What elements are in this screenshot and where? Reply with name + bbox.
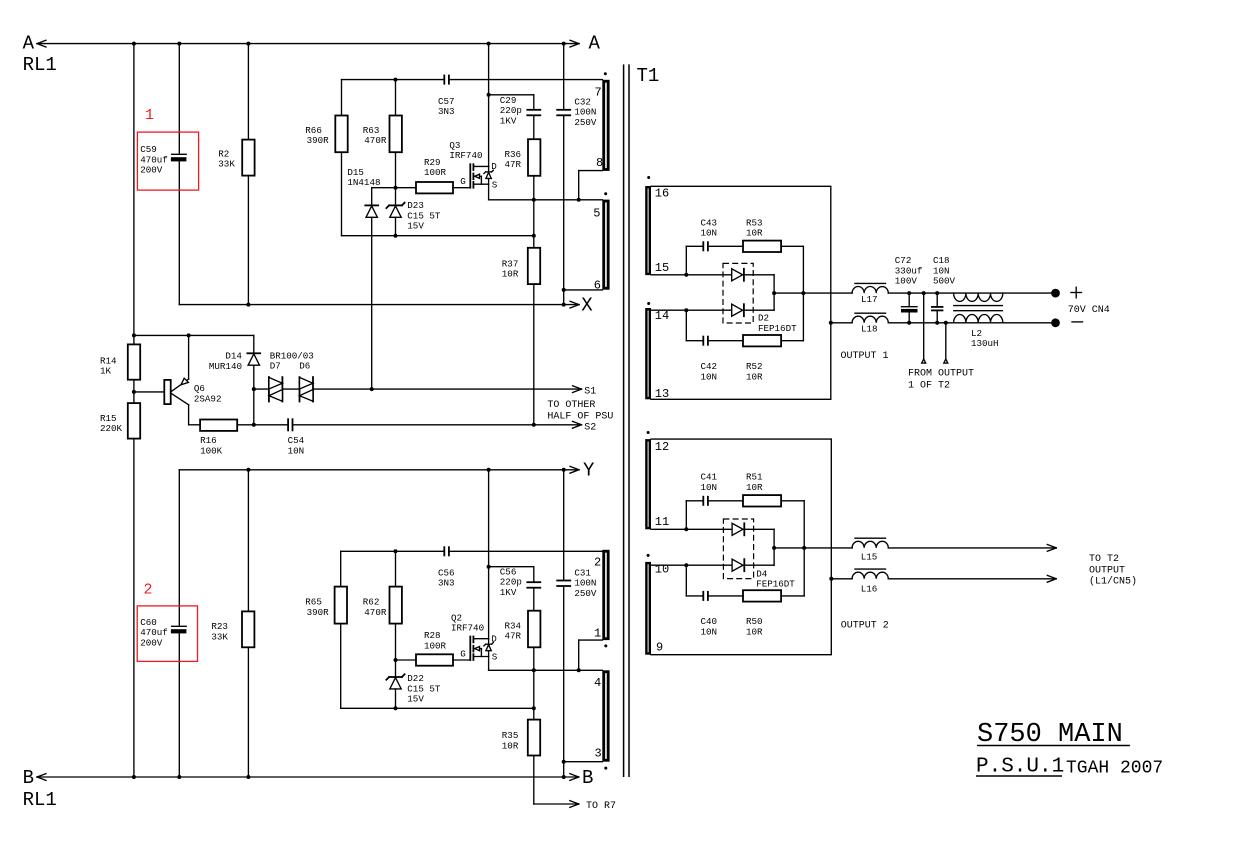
pin label S Q2 (492, 652, 498, 663)
label BR100/03 (270, 350, 314, 361)
svg-text:500V: 500V (933, 276, 956, 287)
wire output1 plus 2 (888, 292, 1051, 294)
resistor R37 (528, 248, 540, 284)
net label S1 (584, 386, 596, 397)
label D14 value (209, 351, 243, 372)
wire net Y (179, 466, 579, 473)
junction drain / C56 220p (487, 565, 491, 569)
capacitor C56 3N3 (444, 547, 449, 555)
wire gate rail (372, 188, 416, 206)
svg-text:IRF740: IRF740 (449, 150, 482, 161)
pin label 16 (655, 187, 669, 201)
wire lower gate rail (396, 659, 417, 661)
wire lower source rail (489, 657, 603, 671)
wire source rail (489, 184, 603, 200)
svg-text:33K: 33K (211, 631, 228, 642)
svg-text:47R: 47R (505, 159, 522, 170)
wire emitter vertical (188, 335, 190, 379)
body diode Q3 (484, 166, 493, 184)
svg-text:70V CN4: 70V CN4 (1068, 305, 1110, 316)
junction A / C32 (562, 42, 566, 46)
inductor L16 (852, 569, 888, 579)
pin label G Q3 (460, 176, 466, 187)
diode D4 lower (732, 559, 744, 571)
wire net X (179, 301, 579, 308)
label R52 value (746, 361, 763, 382)
svg-text:47R: 47R (505, 631, 522, 642)
pin label 6 (594, 278, 601, 292)
wire winding 3 tap (564, 761, 603, 763)
junction B / C31 (562, 775, 566, 779)
core line T1 left (623, 64, 625, 777)
zener D23 (386, 188, 404, 236)
capacitor C42 (703, 337, 708, 345)
body diode Q2 (484, 639, 493, 657)
label R36 value (505, 149, 522, 170)
wire lower drain bus (488, 470, 490, 639)
wire net A horizontal (37, 40, 579, 47)
capacitor C31 (557, 470, 570, 777)
wire output1 minus 2 (888, 322, 1051, 324)
label C43 value (701, 217, 718, 238)
wire D4 upper out (744, 529, 774, 548)
terminal CN4 plus (1051, 289, 1060, 298)
dashed box D2 (723, 263, 753, 323)
wire left rail lower segment (133, 439, 135, 777)
title P.S.U.1 (976, 756, 1064, 779)
wire R66 bottom (341, 152, 343, 236)
svg-text:390R: 390R (307, 135, 330, 146)
wire snubber right rail 1 (802, 246, 804, 340)
resistor R63 (390, 80, 402, 188)
pin label 2 (594, 556, 601, 570)
wire pin 10 (651, 564, 732, 566)
label C31 value (574, 567, 597, 598)
wire lower top rail (341, 551, 603, 586)
diode D14 (247, 353, 260, 389)
winding T1 7-8 (602, 80, 609, 171)
junction snubber / output2 (802, 546, 806, 550)
svg-text:200V: 200V (140, 637, 163, 648)
net label S2 (584, 423, 596, 434)
junction pin11 / snubber (684, 527, 688, 531)
junction snubber / output1 (801, 291, 805, 295)
pin label 10 (655, 563, 669, 577)
wire R36 R37 link (533, 200, 535, 248)
junction B / C60 (177, 775, 181, 779)
junction L18 tap (829, 321, 833, 325)
svg-text:16: 16 (655, 187, 669, 201)
wire R34 bottom (533, 647, 535, 670)
wire snubber4 rail (686, 565, 804, 596)
wire top rail (342, 80, 603, 116)
junction C31 / winding 3 (562, 760, 566, 764)
red box 1 (137, 132, 198, 190)
pin label 11 (655, 515, 669, 529)
resistor R35 (528, 720, 540, 756)
svg-text:B: B (23, 767, 34, 789)
svg-text:D: D (491, 161, 497, 172)
junction emitter vertical (187, 333, 191, 337)
net label B (left) (23, 767, 34, 789)
wire D14 to S2 (253, 389, 255, 425)
label L18 value (861, 324, 878, 335)
svg-text:100V: 100V (895, 276, 918, 287)
svg-text:TGAH 2007: TGAH 2007 (1066, 759, 1163, 779)
polarity dot winding 1 (604, 644, 607, 647)
svg-text:L16: L16 (861, 584, 878, 595)
svg-text:D6: D6 (299, 361, 310, 372)
label C18 value (933, 255, 956, 286)
svg-text:100K: 100K (200, 445, 223, 456)
wire output2 line 3 (831, 578, 852, 580)
svg-text:15V: 15V (407, 694, 424, 705)
svg-text:11: 11 (655, 515, 669, 529)
label 70V CN4 (1068, 305, 1110, 316)
label D4 value (756, 568, 795, 589)
label R28 value (424, 630, 447, 651)
resistor R34 (528, 611, 540, 648)
svg-text:3N3: 3N3 (438, 578, 455, 589)
diode D4 upper (732, 523, 744, 535)
svg-text:470R: 470R (364, 135, 387, 146)
net label B (right) (582, 767, 593, 789)
svg-text:S1: S1 (584, 386, 596, 397)
junction FROM line 2 (944, 321, 948, 325)
wire output2 line 4 (888, 575, 1056, 582)
wire S1 segment 1 (254, 388, 269, 390)
junction Y / C31 (562, 468, 566, 472)
pin label S Q3 (492, 179, 498, 190)
junction A / drain bus (487, 42, 491, 46)
red label 2 (144, 582, 153, 599)
svg-text:10R: 10R (746, 228, 763, 239)
svg-text:220K: 220K (100, 423, 123, 434)
svg-text:P.S.U.1: P.S.U.1 (976, 756, 1064, 779)
label Q6 value (194, 383, 222, 404)
svg-text:4: 4 (594, 676, 601, 690)
svg-text:5: 5 (593, 207, 600, 221)
label R15 value (100, 413, 123, 434)
junction S2 / D14 (252, 423, 256, 427)
wire R65 bottom (340, 624, 342, 709)
pin label 4 (594, 676, 601, 690)
resistor R14 (128, 344, 140, 379)
wire drain bus upper (488, 44, 490, 167)
svg-text:RL1: RL1 (23, 54, 57, 76)
wire R36 bottom (533, 176, 535, 200)
svg-text:10N: 10N (701, 482, 718, 493)
wire from T2 output 1 (922, 293, 926, 363)
label OUTPUT 1 (841, 351, 889, 362)
wire output1 plus (774, 292, 852, 294)
label D7 (270, 361, 281, 372)
wire pin 14 (651, 309, 732, 311)
title S750 MAIN (977, 720, 1130, 750)
transistor Q3 (470, 164, 488, 188)
label L15 value (861, 552, 878, 563)
wire snubber2 rail (686, 310, 803, 341)
diac D7 (269, 377, 283, 401)
svg-text:TO R7: TO R7 (586, 801, 616, 812)
svg-text:14: 14 (655, 309, 669, 323)
junction drain / C29 (487, 93, 491, 97)
polarity dot winding 5 (604, 192, 607, 195)
winding T1 5-6 (602, 200, 609, 290)
wire S1 segment 3 (313, 386, 582, 393)
label C72 value (895, 255, 923, 286)
polarity dot winding 16 (647, 176, 650, 179)
label R66 value (305, 125, 329, 146)
svg-text:9: 9 (656, 641, 663, 655)
junction X / R2 (246, 303, 250, 307)
label R62 value (363, 597, 387, 618)
wire output1 return loop (651, 186, 831, 399)
junction C18 top (935, 291, 939, 295)
label R37 value (502, 259, 519, 280)
svg-text:10R: 10R (502, 269, 519, 280)
pin label 15 (655, 261, 669, 275)
capacitor C57 (444, 76, 449, 84)
svg-text:G: G (460, 648, 466, 659)
label Q3 value (449, 140, 482, 161)
label TO T2 OUTPUT (1089, 554, 1137, 587)
wire base (134, 391, 164, 393)
junction C18 bottom (935, 321, 939, 325)
wire to D14 top (253, 335, 255, 353)
label C60 value (140, 617, 168, 648)
svg-text:FROM OUTPUT: FROM OUTPUT (908, 368, 974, 379)
svg-text:Y: Y (583, 460, 595, 482)
capacitor C32 (557, 44, 570, 305)
junction lower source / winding 1 (577, 668, 581, 672)
svg-text:1: 1 (594, 626, 601, 640)
svg-text:D7: D7 (270, 361, 281, 372)
svg-text:1 OF T2: 1 OF T2 (908, 381, 950, 392)
svg-text:OUTPUT 2: OUTPUT 2 (841, 620, 889, 631)
junction X / C32 (562, 303, 566, 307)
wire from T2 output 2 (944, 323, 948, 363)
capacitor C59 (171, 44, 187, 305)
wire output2 line 2 (888, 545, 1056, 552)
label TO R7 (586, 801, 616, 812)
svg-text:A: A (589, 33, 601, 55)
inductor L2 (954, 293, 1003, 323)
label D15 value (347, 167, 380, 188)
label L16 value (861, 584, 878, 595)
inductor L15 (852, 538, 888, 548)
wire D4 lower out (744, 548, 774, 565)
junction gate rail / R62 D22 (394, 658, 398, 662)
resistor R65 (335, 587, 347, 624)
junction lower rail / R62 (394, 549, 398, 553)
label T1 (637, 65, 660, 87)
junction source / winding 8 (577, 198, 581, 202)
capacitor C29 (527, 110, 540, 116)
junction gate rail / R63 D23 (394, 186, 398, 190)
svg-text:33K: 33K (218, 159, 235, 170)
red label 1 (145, 107, 154, 124)
junction C32 / winding 6 (562, 288, 566, 292)
label D2 value (758, 313, 797, 334)
junction zener rail / R37 (532, 234, 536, 238)
label C29 value (500, 95, 522, 126)
junction rail / R63 (394, 78, 398, 82)
wire lower gate (453, 659, 470, 661)
resistor R51 (743, 495, 781, 506)
wire C56 to R34 (533, 588, 535, 611)
label C41 value (701, 472, 718, 493)
svg-text:D: D (491, 634, 497, 645)
svg-text:L18: L18 (861, 324, 878, 335)
svg-text:8: 8 (596, 156, 603, 170)
pin label 14 (655, 309, 669, 323)
wire C29 to R36 (533, 115, 535, 139)
label R23 value (211, 621, 228, 642)
svg-text:10R: 10R (746, 371, 763, 382)
capacitor C60 (171, 470, 187, 777)
svg-text:S2: S2 (584, 423, 596, 434)
net label RL1 (top) (23, 54, 57, 76)
label R29 value (424, 157, 447, 178)
junction emitter branch (132, 333, 136, 337)
junction A / left rail (132, 42, 136, 46)
svg-text:12: 12 (655, 440, 669, 454)
svg-text:RL1: RL1 (23, 789, 57, 811)
label R51 value (746, 472, 763, 493)
junction lower zener rail / R35 (532, 706, 536, 710)
junction S2 / R37 (532, 423, 536, 427)
wire S2 segment 2 (293, 421, 582, 428)
svg-text:130uH: 130uH (971, 338, 999, 349)
junction source / R36 R37 (532, 198, 536, 202)
junction C72 top (907, 291, 911, 295)
junction pin10 / snubber (684, 563, 688, 567)
pin label D Q3 (491, 161, 497, 172)
resistor R23 (242, 470, 254, 777)
capacitor C41 (703, 497, 708, 505)
svg-text:3N3: 3N3 (438, 106, 455, 117)
wire R16 to junction (237, 424, 254, 426)
svg-text:(L1/CN5): (L1/CN5) (1089, 576, 1137, 588)
red box 2 (137, 606, 197, 662)
label OUTPUT 2 (841, 620, 889, 631)
svg-text:10N: 10N (701, 228, 718, 239)
junction B / left rail (132, 775, 136, 779)
net label X (581, 294, 593, 316)
label D6 (299, 361, 310, 372)
wire winding 1 tap (579, 640, 603, 670)
capacitor C40 (703, 592, 708, 600)
label C57 value (438, 96, 455, 117)
wire lower zener rail (341, 707, 534, 709)
pin label G Q2 (460, 648, 466, 659)
inductor L18 (852, 313, 888, 323)
wire R34 R35 link (533, 670, 535, 719)
wire zener rail (342, 235, 534, 237)
resistor R16 (200, 420, 237, 431)
svg-text:TO OTHER: TO OTHER (547, 400, 595, 411)
pin label 12 (655, 440, 669, 454)
pin label D Q2 (491, 634, 497, 645)
label R35 value (502, 730, 519, 751)
label C56 220p value (500, 567, 522, 598)
label R14 value (100, 355, 117, 376)
wire gate (453, 187, 470, 189)
resistor R36 (528, 139, 540, 176)
svg-text:IRF740: IRF740 (451, 623, 484, 634)
junction C72 bottom (907, 321, 911, 325)
wire rail between R14 R15 (133, 380, 135, 403)
junction A / R2 (246, 42, 250, 46)
net label A (left) (23, 33, 35, 55)
svg-text:S: S (492, 179, 498, 190)
svg-text:X: X (581, 294, 593, 316)
svg-text:A: A (23, 33, 35, 55)
junction D4 output node (772, 546, 776, 550)
wire snubber1 rail (686, 246, 803, 274)
svg-text:1N4148: 1N4148 (347, 177, 380, 188)
junction lower zener rail / D22 (394, 706, 398, 710)
capacitor C43 (703, 242, 708, 250)
plus sign (1071, 287, 1082, 298)
svg-text:TO T2: TO T2 (1089, 554, 1119, 565)
pin label 9 (656, 641, 663, 655)
svg-text:L15: L15 (861, 552, 878, 563)
label R16 value (200, 435, 223, 456)
winding T1 16-15 (645, 186, 651, 275)
svg-text:200V: 200V (140, 165, 163, 176)
resistor R52 (743, 335, 781, 346)
pin label 3 (595, 746, 602, 760)
label R50 value (746, 616, 763, 637)
wire S1 segment 2 (282, 388, 299, 390)
svg-text:2SA92: 2SA92 (194, 393, 222, 404)
svg-text:FEP16DT: FEP16DT (758, 323, 797, 334)
junction lower source / R34 R35 (532, 668, 536, 672)
wire collector (189, 405, 201, 425)
transistor Q2 (470, 637, 488, 661)
diode D2 upper (732, 269, 744, 281)
capacitor C54 (288, 419, 292, 430)
label R34 value (505, 621, 522, 642)
pin label 13 (655, 387, 669, 401)
svg-text:6: 6 (594, 278, 601, 292)
diode D2 lower (732, 304, 744, 316)
junction B / R23 (246, 775, 250, 779)
svg-text:10N: 10N (701, 371, 718, 382)
svg-text:FEP16DT: FEP16DT (756, 579, 795, 590)
svg-text:1KV: 1KV (500, 587, 517, 598)
wire pin 15 (651, 274, 732, 276)
winding T1 10-9 (645, 562, 651, 655)
junction D2 output node (772, 291, 776, 295)
svg-text:HALF OF PSU: HALF OF PSU (547, 412, 613, 423)
label D23 value (407, 200, 441, 231)
resistor R62 (390, 551, 402, 660)
resistor R66 (335, 116, 347, 153)
wire S2 segment 1 (254, 424, 288, 426)
svg-text:L17: L17 (861, 294, 878, 305)
svg-text:10N: 10N (701, 626, 718, 637)
resistor R53 (743, 241, 781, 252)
zener D22 (386, 660, 404, 708)
svg-text:10R: 10R (746, 626, 763, 637)
junction A / C59 (177, 42, 181, 46)
junction S1 / D15 (370, 387, 374, 391)
label C32 value (574, 96, 597, 127)
transistor Q6 (164, 378, 188, 405)
